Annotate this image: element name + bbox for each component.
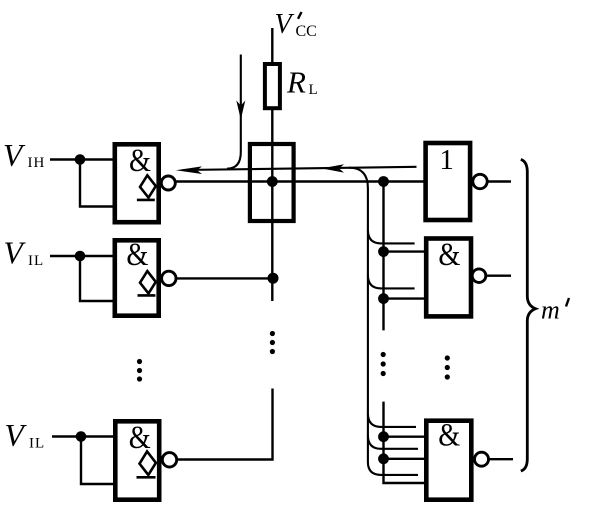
U3 output bubble: [475, 452, 489, 466]
arrowhead down on RL current arrow: [236, 101, 245, 120]
wire V_IH input to G1: [50, 158, 116, 160]
wire U3 output: [489, 458, 514, 460]
current annotation main line toward G1 output: [183, 167, 417, 170]
svg-text:&: &: [438, 237, 460, 273]
wire U1 output: [487, 180, 511, 182]
G2 diamond bar: [138, 294, 156, 297]
wire G2 output to central vertical: [174, 277, 274, 279]
current stub into U2 input b: [368, 275, 415, 288]
node dot V_IL (G2): [75, 251, 86, 262]
wire G3 output up central vertical lower segment: [174, 389, 273, 460]
OC gate G3 body: [115, 421, 159, 499]
U1 output bubble: [473, 174, 487, 188]
wire wired-AND bus (G1 output to U1 input): [172, 180, 426, 182]
ellipsis right distribution vertical: [381, 352, 386, 376]
svg-text:IL: IL: [29, 436, 45, 452]
wire U2 output: [486, 275, 511, 277]
svg-text:V: V: [275, 9, 295, 40]
resistor RL body: [265, 64, 280, 108]
svg-text:IH: IH: [28, 155, 46, 171]
OC gate G1 body: [115, 144, 159, 222]
svg-text:m: m: [541, 296, 560, 325]
U2 output bubble: [472, 269, 486, 283]
wire U3 input a: [384, 436, 428, 438]
wire V'CC to resistor: [271, 28, 273, 62]
ellipsis central vertical: [270, 331, 275, 354]
node dot right bus at U1 input: [378, 176, 389, 187]
wire V_IL input to G2: [50, 255, 116, 257]
current stub into U3 input b: [368, 436, 418, 449]
node dot U2 input b: [378, 293, 389, 304]
svg-text:R: R: [286, 65, 306, 100]
G2 output bubble: [162, 271, 176, 285]
arrowhead left mid-line: [322, 164, 345, 172]
wire V_IL input to G3: [52, 435, 117, 437]
node dot U3 input a: [378, 431, 389, 442]
gate U1 body: [426, 143, 471, 220]
G3 output bubble: [162, 453, 176, 467]
current arrow into node (from RL side), curving into main arrow line: [227, 55, 241, 169]
wire G3 input tie: [81, 437, 117, 485]
wire resistor to wired-AND node (central vertical upper): [271, 110, 273, 301]
current stub into U3 input a: [368, 414, 416, 427]
gate U2 body: [426, 239, 471, 317]
gate U3 body: [426, 421, 471, 500]
OC gate G2 body: [115, 240, 159, 315]
G3 open-collector diamond: [139, 451, 157, 475]
wire right distribution vertical upper: [382, 182, 384, 331]
wire G2 input tie: [80, 256, 116, 301]
arrowhead left at G1 output: [176, 166, 202, 174]
ellipsis left gate column: [137, 359, 142, 382]
node dot V_IH: [75, 154, 86, 165]
wire U3 input b: [384, 458, 428, 460]
svg-text:IL: IL: [28, 253, 44, 269]
svg-text:CC: CC: [296, 23, 317, 40]
node dot V_IL (G3): [76, 431, 87, 442]
wire U2 input b: [384, 297, 428, 299]
ellipsis right gate column: [445, 355, 450, 379]
wire G1 input tie: [80, 160, 116, 207]
svg-text:&: &: [438, 418, 460, 454]
wire U2 input a: [384, 250, 428, 252]
svg-text:L: L: [309, 82, 318, 98]
wire right distribution vertical lower with corner into U3 bottom input: [384, 402, 428, 483]
current stub into U2 input a: [368, 230, 415, 243]
node dot U2 input a: [378, 246, 389, 257]
node dot U3 input b: [378, 453, 389, 464]
G1 diamond bar: [137, 199, 155, 202]
current collector vertical with curve from main line and terminal stub: [349, 168, 418, 475]
G2 open-collector diamond: [139, 271, 156, 294]
svg-text:&: &: [129, 143, 151, 179]
svg-text:1: 1: [439, 144, 454, 176]
G1 open-collector diamond: [139, 175, 156, 198]
G1 output bubble: [161, 176, 175, 190]
G3 diamond bar: [137, 476, 156, 479]
node dot wired-AND center: [267, 176, 278, 187]
junction block (wired-AND box): [250, 144, 294, 221]
svg-text:&: &: [126, 237, 148, 273]
node dot G2 output junction: [268, 273, 279, 284]
brace m': [521, 159, 536, 471]
